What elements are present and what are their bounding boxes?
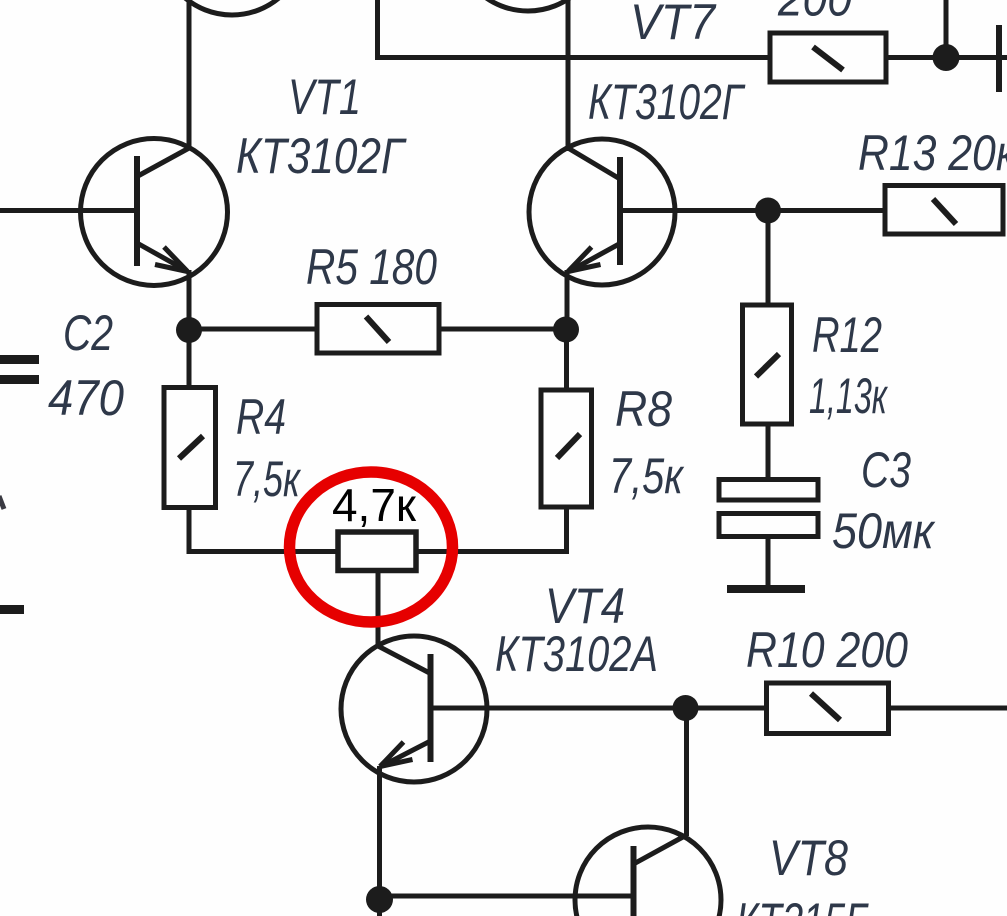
tick (partial mark, left edge) <box>0 496 4 509</box>
svg-text:470: 470 <box>48 370 124 426</box>
wire R10 to right edge <box>889 706 1007 711</box>
svg-text:7,5к: 7,5к <box>233 451 302 507</box>
svg-text:С2: С2 <box>63 305 113 361</box>
svg-text:R4: R4 <box>236 389 286 445</box>
svg-text:VT7: VT7 <box>630 0 717 50</box>
svg-text:50мк: 50мк <box>832 503 936 559</box>
node (junction dot) <box>553 317 579 343</box>
svg-text:4,7к: 4,7к <box>332 479 417 531</box>
wire R12 to C3 <box>766 424 771 481</box>
ground <box>727 585 805 593</box>
wire node down to VT8 <box>684 708 689 836</box>
wire up from node <box>944 0 949 58</box>
node (junction dot) <box>366 886 393 913</box>
wire R5 to node <box>439 327 566 332</box>
transistor (partial, above top edge, middle) <box>455 0 601 11</box>
capacitor C2 (partial, left edge) <box>0 355 39 364</box>
wire VT7 collector up <box>566 0 571 151</box>
resistor R4 <box>164 388 216 508</box>
wire VT7 emitter down <box>565 270 570 330</box>
node (junction dot) <box>673 695 699 721</box>
wire VT1 emitter down <box>187 270 192 330</box>
dash (partial symbol, left edge) <box>0 605 24 614</box>
svg-text:С3: С3 <box>861 442 911 498</box>
wire node to R4 <box>187 330 192 388</box>
resistor 4,7k (highlighted) <box>338 532 416 571</box>
svg-text:КТ3102А: КТ3102А <box>495 626 658 682</box>
capacitor C3 <box>719 480 818 501</box>
transistor VT1 <box>0 139 228 286</box>
resistor R5 <box>317 305 439 354</box>
transistor VT8 (partial, bottom edge) <box>575 827 721 916</box>
svg-text:R8: R8 <box>615 381 672 437</box>
svg-text:R12: R12 <box>812 307 882 363</box>
node (junction dot) <box>933 44 960 71</box>
annotation red circle <box>290 472 453 622</box>
svg-text:R10 200: R10 200 <box>746 622 908 678</box>
wire node to R5 <box>189 327 317 332</box>
wire C3 to ground <box>766 534 771 586</box>
wire 4,7k to VT4 <box>376 571 381 647</box>
resistor R10 <box>767 683 889 734</box>
wire stub right edge <box>1002 55 1007 60</box>
wire node to R8 <box>564 330 569 390</box>
svg-text:КТ3102Г: КТ3102Г <box>588 74 746 130</box>
svg-text:КТ3102Г: КТ3102Г <box>236 128 407 184</box>
resistor R13 <box>885 186 1003 235</box>
resistor R12 <box>743 305 792 424</box>
transistor (partial, above top edge, left) <box>159 0 305 15</box>
wire top rail with corner <box>378 0 771 58</box>
wire node to R13 <box>768 208 885 213</box>
svg-text:КТ315Б: КТ315Б <box>736 893 870 916</box>
svg-text:VT8: VT8 <box>769 830 848 886</box>
transistor VT7 <box>529 139 768 285</box>
svg-text:200: 200 <box>777 0 852 27</box>
wire node down to R12 <box>766 211 771 306</box>
svg-text:VT1: VT1 <box>288 69 361 125</box>
wire 4,7k resistor to R4 <box>189 508 338 552</box>
svg-text:R13 20к: R13 20к <box>858 125 1007 181</box>
resistor 200 (top) <box>770 33 886 82</box>
wire VT4 emitter down <box>377 766 382 916</box>
svg-text:1,13к: 1,13к <box>809 368 889 424</box>
wire resistor to node <box>886 55 996 60</box>
svg-text:R5 180: R5 180 <box>306 239 437 295</box>
svg-text:7,5к: 7,5к <box>609 448 685 504</box>
node (junction dot) <box>755 198 781 224</box>
wire node to VT8 base <box>380 894 634 899</box>
node (junction dot) <box>176 317 202 343</box>
wire VT1 collector up <box>187 0 192 150</box>
transistor VT4 <box>341 636 767 782</box>
resistor R8 <box>541 390 592 507</box>
wire bottom U: R8 to 4,7k resistor <box>416 507 567 552</box>
capacitor plate (partial, right edge) <box>996 25 1002 92</box>
